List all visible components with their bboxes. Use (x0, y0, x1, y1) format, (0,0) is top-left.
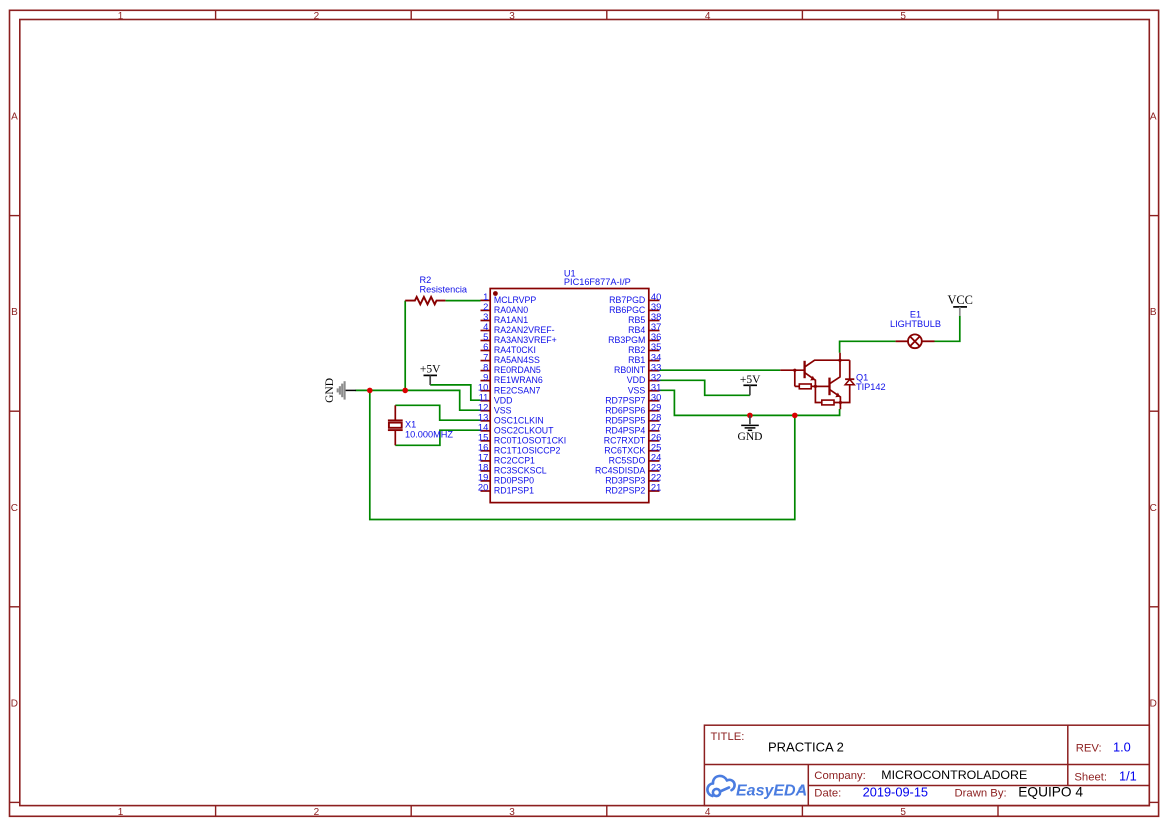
U1 pin 28 RD5PSP5 (605, 412, 661, 426)
U1 pin 23 RC4SDISDA (595, 462, 661, 476)
svg-text:B: B (11, 307, 18, 318)
svg-text:RB1: RB1 (628, 355, 645, 365)
resistor R2 Resistencia (405, 275, 468, 304)
frame column numbers 1-5 top and bottom (118, 11, 907, 818)
crystal X1 10.000MHZ (388, 405, 403, 445)
svg-text:Sheet:: Sheet: (1074, 772, 1107, 784)
svg-text:RB6PGC: RB6PGC (609, 305, 646, 315)
svg-text:2: 2 (314, 11, 320, 22)
svg-text:RB2: RB2 (628, 345, 645, 355)
U1 pin 15 RC0T1OSOT1CKI (478, 432, 566, 446)
svg-text:RD1PSP1: RD1PSP1 (494, 486, 534, 496)
U1 pin 12 VSS (478, 401, 512, 415)
U1 pin 7 RA5AN4SS (481, 351, 540, 365)
U1 pin 39 RB6PGC (609, 301, 661, 315)
U1 pin 32 VDD (627, 371, 662, 385)
svg-text:RD3PSP3: RD3PSP3 (605, 476, 645, 486)
svg-text:EasyEDA: EasyEDA (736, 783, 807, 800)
svg-text:RE2CSAN7: RE2CSAN7 (494, 385, 541, 395)
U1 pin 35 RB2 (628, 341, 661, 355)
U1 pin 25 RC6TXCK (604, 442, 661, 456)
U1 pin 14 OSC2CLKOUT (478, 422, 554, 436)
svg-text:RC4SDISDA: RC4SDISDA (595, 466, 645, 476)
svg-text:4: 4 (705, 11, 711, 22)
svg-text:1: 1 (118, 11, 124, 22)
svg-text:RE0RDAN5: RE0RDAN5 (494, 365, 541, 375)
svg-text:3: 3 (509, 11, 515, 22)
U1 pin 33 RB0INT (614, 361, 661, 375)
svg-text:1.0: 1.0 (1113, 740, 1131, 755)
U1 pin 24 RC5SDO (609, 452, 662, 466)
power flag +5V left (420, 364, 441, 385)
U1 pin 40 RB7PGD (609, 291, 661, 305)
wire crystal bottom to U1 pin 14 OSC2CLKOUT (395, 430, 480, 445)
svg-text:RC6TXCK: RC6TXCK (604, 445, 645, 455)
svg-text:5: 5 (900, 11, 906, 22)
wire Q1 collector up to lamp E1 (840, 341, 896, 353)
U1 pin 9 RE1WRAN6 (481, 371, 543, 385)
svg-text:RD5PSP5: RD5PSP5 (605, 415, 645, 425)
svg-text:Q1: Q1 (856, 373, 868, 383)
svg-text:LIGHTBULB: LIGHTBULB (890, 319, 941, 329)
power flag +5V right (740, 374, 761, 395)
U1 pin 26 RC7RXDT (604, 432, 662, 446)
wire +5V left to U1 pin 11 VDD (430, 385, 480, 400)
U1 pin 2 RA0AN0 (481, 301, 529, 315)
U1 pin 22 RD3PSP3 (605, 472, 661, 486)
U1 pin 13 OSC1CLKIN (478, 412, 544, 426)
U1 pin 18 RC3SCKSCL (478, 462, 547, 476)
svg-text:OSC1CLKIN: OSC1CLKIN (494, 415, 544, 425)
svg-text:MCLRVPP: MCLRVPP (494, 295, 537, 305)
svg-text:C: C (1150, 503, 1157, 514)
U1 pin 36 RB3PGM (608, 331, 661, 345)
title block outline (704, 725, 1149, 805)
svg-text:Drawn By:: Drawn By: (955, 787, 1007, 799)
svg-text:RC2CCP1: RC2CCP1 (494, 456, 535, 466)
svg-text:REV:: REV: (1076, 742, 1102, 754)
U1 pin 17 RC2CCP1 (478, 452, 535, 466)
U1 pin 19 RD0PSP0 (478, 472, 534, 486)
U1 pin 1 MCLRVPP (481, 291, 537, 305)
svg-text:RD4PSP4: RD4PSP4 (605, 425, 645, 435)
wire GND rail to U1 pin 12 VSS (356, 390, 481, 410)
svg-text:RC7RXDT: RC7RXDT (604, 435, 646, 445)
power flag VCC (947, 293, 972, 316)
junction GND rail / bottom loop (367, 388, 373, 394)
ground GND left (signal ground, rotated) (324, 378, 356, 403)
svg-text:RA1AN1: RA1AN1 (494, 315, 528, 325)
lamp E1 LIGHTBULB (896, 334, 935, 348)
svg-text:VCC: VCC (947, 293, 972, 307)
U1 pin 8 RE0RDAN5 (481, 361, 541, 375)
svg-text:D: D (1150, 698, 1157, 709)
svg-text:PIC16F877A-I/P: PIC16F877A-I/P (564, 277, 631, 287)
svg-text:RD2PSP2: RD2PSP2 (605, 486, 645, 496)
svg-text:A: A (1150, 111, 1157, 122)
svg-text:TITLE:: TITLE: (711, 731, 745, 743)
svg-text:EQUIPO 4: EQUIPO 4 (1018, 784, 1083, 799)
svg-text:Date:: Date: (814, 787, 841, 799)
svg-text:VSS: VSS (494, 405, 512, 415)
svg-text:1/1: 1/1 (1119, 769, 1137, 784)
junction emitter rail / GND flag (747, 413, 753, 419)
svg-text:RA2AN2VREF-: RA2AN2VREF- (494, 325, 555, 335)
ground GND right (earth ground) (738, 415, 763, 442)
wire U1 pin 33 RB0INT to Q1 base (660, 369, 781, 371)
svg-text:21: 21 (651, 482, 661, 493)
U1 pin 20 RD1PSP1 (478, 482, 534, 496)
U1 pin 34 RB1 (628, 351, 661, 365)
svg-text:B: B (1150, 307, 1157, 318)
svg-text:VDD: VDD (627, 375, 646, 385)
U1 pin 29 RD6PSP6 (605, 401, 661, 415)
frame row letters A-D left and right (11, 111, 1157, 709)
svg-text:E1: E1 (910, 310, 921, 320)
wire crystal top to U1 pin 13 OSC1CLKIN (395, 405, 480, 420)
svg-text:RD7PSP7: RD7PSP7 (605, 395, 645, 405)
svg-text:RA5AN4SS: RA5AN4SS (494, 355, 540, 365)
svg-text:D: D (11, 698, 18, 709)
transistor Q1 TIP142 darlington (780, 353, 854, 409)
svg-text:2: 2 (314, 807, 320, 818)
svg-text:RC5SDO: RC5SDO (609, 456, 646, 466)
svg-text:RD6PSP6: RD6PSP6 (605, 405, 645, 415)
svg-text:1: 1 (118, 807, 124, 818)
svg-text:RB3PGM: RB3PGM (608, 335, 645, 345)
svg-text:TIP142: TIP142 (856, 382, 886, 392)
svg-text:+5V: +5V (420, 364, 441, 376)
svg-text:2019-09-15: 2019-09-15 (863, 784, 928, 799)
U1 pin 16 RC1T1OSICCP2 (478, 442, 561, 456)
U1 pin 3 RA1AN1 (481, 311, 529, 325)
svg-text:3: 3 (509, 807, 515, 818)
svg-text:RB0INT: RB0INT (614, 365, 646, 375)
wire U1 pin 32 VDD to +5V right (660, 380, 750, 395)
svg-text:VDD: VDD (494, 395, 513, 405)
wire U1 pin 31 VSS to emitter rail (660, 390, 840, 415)
op-amp U1 PIC16F877A-I/P IC body (490, 289, 649, 503)
EasyEDA logo cloud icon (707, 776, 734, 796)
svg-text:RA4T0CKI: RA4T0CKI (494, 345, 536, 355)
svg-text:RC1T1OSICCP2: RC1T1OSICCP2 (494, 445, 561, 455)
svg-text:X1: X1 (405, 420, 416, 430)
svg-text:Company:: Company: (814, 770, 866, 782)
U1 pin 31 VSS (628, 381, 662, 395)
svg-text:20: 20 (478, 482, 488, 493)
svg-text:RA3AN3VREF+: RA3AN3VREF+ (494, 335, 557, 345)
svg-text:MICROCONTROLADORE: MICROCONTROLADORE (881, 768, 1027, 782)
svg-text:GND: GND (738, 431, 763, 443)
svg-text:RB4: RB4 (628, 325, 645, 335)
svg-text:C: C (11, 503, 18, 514)
svg-text:RD0PSP0: RD0PSP0 (494, 476, 534, 486)
junction GND rail / R2 branch (402, 388, 408, 394)
junction emitter rail / bottom loop (792, 413, 798, 419)
svg-text:5: 5 (900, 807, 906, 818)
wire R2 right terminal to U1 pin 1 (445, 300, 480, 302)
svg-text:A: A (11, 111, 18, 122)
U1 pin 21 RD2PSP2 (605, 482, 661, 496)
svg-text:RE1WRAN6: RE1WRAN6 (494, 375, 543, 385)
svg-text:+5V: +5V (740, 374, 761, 386)
U1 pin 10 RE2CSAN7 (478, 381, 541, 395)
U1 pin 11 VDD (479, 391, 513, 405)
svg-text:VSS: VSS (628, 385, 646, 395)
svg-text:Resistencia: Resistencia (420, 285, 468, 295)
U1 pin 27 RD4PSP4 (605, 422, 661, 436)
svg-text:RB5: RB5 (628, 315, 645, 325)
wire R2 left terminal down to GND rail (404, 301, 406, 391)
svg-text:OSC2CLKOUT: OSC2CLKOUT (494, 425, 554, 435)
svg-text:4: 4 (705, 807, 711, 818)
wire lamp E1 to VCC (935, 316, 960, 342)
svg-text:GND: GND (324, 378, 336, 403)
U1 pin-1 marker dot (493, 291, 498, 296)
U1 pin 30 RD7PSP7 (605, 391, 661, 405)
U1 pin 5 RA3AN3VREF+ (481, 331, 557, 345)
svg-text:®: ® (799, 786, 804, 794)
U1 pin 38 RB5 (628, 311, 661, 325)
wire bottom loop GND rail to transistor emitter rail (370, 390, 795, 519)
U1 pin 37 RB4 (628, 321, 661, 335)
U1 pin 6 RA4T0CKI (481, 341, 536, 355)
svg-text:RC3SCKSCL: RC3SCKSCL (494, 466, 547, 476)
svg-text:RB7PGD: RB7PGD (609, 295, 645, 305)
svg-text:RA0AN0: RA0AN0 (494, 305, 528, 315)
svg-text:10.000MHZ: 10.000MHZ (405, 429, 453, 439)
svg-text:PRACTICA 2: PRACTICA 2 (768, 740, 844, 755)
U1 pin 4 RA2AN2VREF- (481, 321, 555, 335)
svg-text:RC0T1OSOT1CKI: RC0T1OSOT1CKI (494, 435, 566, 445)
